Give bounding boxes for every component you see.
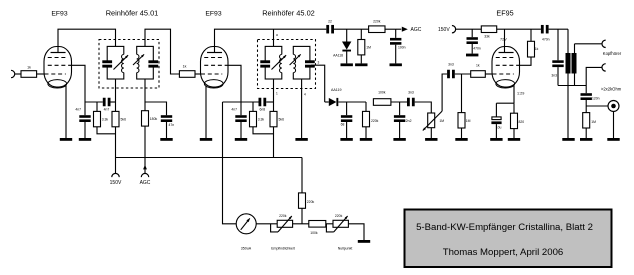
wire V2 cathode to ground <box>205 86 207 138</box>
pin label 4 <box>304 93 306 97</box>
wire rail to 150V terminal <box>115 158 117 174</box>
svg-text:1k: 1k <box>27 65 31 69</box>
wire R12 to C9 node <box>391 101 407 103</box>
terminal antenna input <box>11 70 15 77</box>
svg-text:1M: 1M <box>591 120 596 124</box>
wire R6 to V2 grid <box>195 73 201 75</box>
wire C14 to transformer node <box>549 28 568 30</box>
svg-text:Reinhöfer 45.02: Reinhöfer 45.02 <box>262 9 315 18</box>
svg-text:180k: 180k <box>150 117 158 121</box>
wire to AGC output arrow <box>396 28 402 30</box>
wire R5 to supply rail <box>144 126 146 157</box>
resistor R10 220k AGC series <box>369 20 385 33</box>
svg-text:470n: 470n <box>542 38 550 42</box>
resistor R3 5k6 <box>112 111 126 126</box>
resistor R4 3.3k <box>94 102 109 127</box>
resistor R5 180k AGC feed <box>142 102 158 126</box>
wire plate line into bandfilter 45.02 <box>273 29 275 46</box>
wire line out connector to ground <box>613 112 615 139</box>
wire R17 to V3 plate node <box>497 28 541 30</box>
svg-text:AA119: AA119 <box>331 88 342 92</box>
svg-text:100n: 100n <box>398 46 406 50</box>
ground C13 <box>490 138 502 141</box>
svg-text:EF93: EF93 <box>51 11 67 18</box>
ground bandfilter 45.02 <box>295 138 307 141</box>
title text line 2 <box>443 247 564 258</box>
svg-text:220k: 220k <box>335 214 343 218</box>
svg-text:Reinhöfer 45.01: Reinhöfer 45.01 <box>106 9 159 18</box>
resistor R9 1M <box>358 29 371 63</box>
diode D2 AA119 detector <box>325 88 342 106</box>
wire D2 to node D <box>338 101 366 103</box>
transformer T1 output <box>566 29 577 138</box>
ground meter circuit <box>358 240 370 243</box>
tube V1 EF93 <box>44 47 72 89</box>
ground C10 <box>393 138 405 141</box>
capacitor C10 2n2 <box>394 102 412 138</box>
svg-text:820: 820 <box>519 120 525 124</box>
capacitor C8 68p <box>341 102 353 138</box>
terminal Kopfhoerer tip <box>602 40 622 56</box>
svg-text:3n3: 3n3 <box>448 63 454 67</box>
wire C9 to volume pot <box>415 102 432 113</box>
pin label 1 <box>276 92 278 96</box>
wire R10 to C7 node <box>385 28 396 30</box>
svg-text:1k: 1k <box>535 47 539 51</box>
svg-text:Empfindlichkeit: Empfindlichkeit <box>271 247 295 251</box>
svg-text:1: 1 <box>276 92 278 96</box>
svg-text:5-Band-KW-Empfänger Cristallin: 5-Band-KW-Empfänger Cristallina, Blatt 2 <box>416 222 593 233</box>
capacitor C11 3n3 grid coupling <box>447 63 455 79</box>
capacitor C7 100n AGC filter <box>390 29 406 63</box>
capacitor C4 4n7 screen decoupling <box>231 102 246 138</box>
arrow AGC direction <box>143 165 147 170</box>
svg-text:4n7: 4n7 <box>75 108 81 112</box>
wire C6 to AA118 node <box>334 28 369 30</box>
svg-text:1M: 1M <box>366 46 371 50</box>
potentiometer P2 220k Empfindlichkeit <box>271 214 295 250</box>
resistor R1 1k grid stopper <box>21 65 37 77</box>
wire V1 plate to bandfilter 45.01 input <box>58 29 116 46</box>
ground C1 <box>79 138 91 141</box>
wire common rail <box>558 85 586 87</box>
wire supply rail to R15 <box>301 158 303 193</box>
pin label 3 <box>318 61 320 65</box>
svg-text:68: 68 <box>341 123 345 127</box>
tube V2 EF93 <box>201 47 229 89</box>
ground C12 <box>466 54 478 57</box>
bandfilter 45.01 dashed box <box>99 40 159 89</box>
terminal AGC <box>140 173 151 186</box>
wire rail to C16 <box>585 86 587 94</box>
ground C3 <box>160 138 172 141</box>
wire C5 to node S5 <box>266 101 273 103</box>
wire bandfilter 45.02 output pin3 <box>311 65 325 102</box>
svg-text:220k: 220k <box>279 214 287 218</box>
wire R4 bottom to R3 line <box>97 127 116 134</box>
capacitor C16 120n line out <box>581 93 600 106</box>
resistor R11 220k load <box>363 102 379 138</box>
wire V2 screen grid to node S4 <box>228 65 241 102</box>
wire V3 screen to R18 <box>520 57 532 65</box>
svg-text:3n3: 3n3 <box>551 73 557 77</box>
wire C2 to node S2 <box>111 101 116 103</box>
ground P1 <box>425 138 437 141</box>
ground C7 <box>390 63 402 66</box>
meter M1 350uA <box>236 214 256 251</box>
svg-text:220k: 220k <box>371 119 379 123</box>
svg-text:Thomas Moppert, April 2006: Thomas Moppert, April 2006 <box>443 247 564 258</box>
capacitor C2 4n7 coupling <box>103 98 111 112</box>
ground R11 <box>360 138 372 141</box>
svg-text:EF95: EF95 <box>496 9 513 18</box>
svg-text:5k6: 5k6 <box>121 118 127 122</box>
svg-text:470n: 470n <box>473 46 481 50</box>
svg-text:220k: 220k <box>373 20 381 24</box>
wire transformer secondary to headphone <box>575 43 602 45</box>
wire bandfilter 45.02 resonator1 bottom to node S5 <box>273 79 275 102</box>
svg-text:1M: 1M <box>466 119 471 123</box>
wire V2 plate to bandfilter 45.02 and AGC branch <box>215 29 327 46</box>
bandfilter 45.01 resonator 1 (cap + variable inductor) <box>102 46 128 79</box>
resistor R20 1M line out load <box>583 106 596 138</box>
svg-text:100k: 100k <box>378 91 386 95</box>
wire cathode node <box>496 102 514 104</box>
node AGC output <box>402 27 422 34</box>
ground transformer <box>562 138 574 141</box>
svg-text:2n2: 2n2 <box>406 119 412 123</box>
wire P1 bottom to ground <box>430 128 432 138</box>
bandfilter 45.01 resonator 2 (variable inductor + cap) <box>133 46 158 79</box>
capacitor C13 10u cathode bypass <box>491 103 501 138</box>
capacitor C9 3n3 coupling <box>407 91 415 107</box>
resistor R16 100k <box>309 221 326 236</box>
svg-text:Kopfhörer: Kopfhörer <box>603 51 622 56</box>
wire rail to AGC terminal <box>144 158 146 174</box>
capacitor C6 22p AGC <box>326 20 334 34</box>
ground V2 cathode <box>200 138 212 141</box>
resistor R7 3.3k <box>250 102 265 127</box>
bandfilter 45.02 resonator 2 <box>290 46 315 79</box>
capacitor C3 47n AGC decoupling <box>161 115 174 138</box>
wire node S4 to C5 <box>241 101 259 103</box>
wire V3 cathode <box>513 86 515 104</box>
potentiometer P3 220k Nullpunkt <box>326 214 352 250</box>
wire rail to headphone return <box>586 67 601 85</box>
label tube V3 type EF95 <box>496 9 513 18</box>
svg-text:AGC: AGC <box>140 180 151 186</box>
wire node S2 to R3 <box>115 102 117 111</box>
label bandfilter Reinhoefer 45.01 <box>106 9 159 18</box>
svg-text:a: a <box>276 33 278 37</box>
wire bandfilter 45.01 resonator1 bottom to node S2 <box>115 79 117 102</box>
wire P3 to ground <box>348 224 364 240</box>
wire R7 bottom to R8 line <box>253 127 274 134</box>
svg-text:4n7: 4n7 <box>231 108 237 112</box>
ground C8 <box>340 138 352 141</box>
wire meter feed from node S4 line <box>223 101 242 103</box>
svg-text:33k: 33k <box>484 34 490 38</box>
resistor R18 1k screen dropper <box>528 41 539 57</box>
svg-text:EF93: EF93 <box>205 11 221 18</box>
ground V1 cathode <box>60 138 72 141</box>
tube V3 EF95 <box>492 47 520 89</box>
bandfilter 45.02 dashed box <box>258 40 316 89</box>
svg-text:150V: 150V <box>110 180 122 186</box>
terminal Kopfhoerer sleeve <box>602 64 606 71</box>
resistor R17 33k <box>481 26 496 38</box>
wire bandfilter 45.01 output to R2 <box>145 29 179 74</box>
wire meter to P2 <box>256 223 277 225</box>
connector line output <box>608 101 619 112</box>
svg-text:1M: 1M <box>439 119 444 123</box>
wire P2 to node N1 <box>293 223 309 225</box>
ground R19 <box>508 138 520 141</box>
wire C16 to line out node <box>586 105 608 107</box>
label headphone impedance <box>601 87 622 92</box>
wire V1 screen grid to node S1 <box>72 65 86 102</box>
svg-text:22: 22 <box>328 20 332 24</box>
wire 150V to R17 <box>456 28 482 30</box>
capacitor C5 6n8 coupling <box>259 98 267 112</box>
label transformer ratio 1:9 <box>517 91 524 95</box>
wire P1 wiper to C11 <box>442 74 447 111</box>
ground R20 <box>580 138 592 141</box>
capacitor C15 3n3 tone <box>551 29 563 85</box>
resistor R15 220k meter feed <box>299 193 315 208</box>
wire R3 to supply rail <box>115 127 117 158</box>
svg-text:3: 3 <box>318 61 320 65</box>
ground line out <box>607 138 619 141</box>
svg-text:150V: 150V <box>438 27 450 33</box>
diode D1 AA118 <box>333 29 351 63</box>
svg-text:120n: 120n <box>592 96 600 100</box>
svg-text:220k: 220k <box>307 200 315 204</box>
svg-text:AA118: AA118 <box>333 53 343 57</box>
svg-text:6n8: 6n8 <box>259 108 265 112</box>
label tube V2 type EF93 <box>205 11 221 18</box>
capacitor C14 470n output coupling <box>541 25 550 42</box>
svg-text:4n7: 4n7 <box>104 108 110 112</box>
wire V1 cathode to ground <box>65 86 67 138</box>
svg-text:>2x2kOhm: >2x2kOhm <box>601 87 622 92</box>
wire V3 plate stem <box>504 29 506 46</box>
wire supply rail <box>116 157 303 159</box>
svg-text:3.3k: 3.3k <box>258 118 265 122</box>
ground D1 <box>341 63 353 66</box>
svg-text:3n3: 3n3 <box>408 91 414 95</box>
title text line 1 <box>416 222 593 233</box>
svg-text:AGC: AGC <box>411 27 422 33</box>
wire R1 to V1 grid <box>37 73 44 75</box>
wire S-meter feed <box>223 102 237 224</box>
resistor R14 1k grid stopper V3 <box>471 63 486 77</box>
resistor R12 100k <box>373 91 391 106</box>
wire R18 to plate supply <box>530 29 532 41</box>
resistor R13 1M grid leak <box>458 74 471 138</box>
terminal 150V supply <box>110 173 122 186</box>
wire bandfilter 45.01 resonator2 bottom to node S3 <box>144 79 146 102</box>
label 72V screen voltage <box>500 37 507 41</box>
wire R8 to supply rail <box>273 127 275 158</box>
svg-text:100k: 100k <box>310 231 318 235</box>
resistor R19 820 cathode <box>511 103 525 138</box>
bandfilter 45.02 resonator 1 <box>260 46 286 79</box>
capacitor C1 4n7 screen decoupling <box>75 102 90 138</box>
label tube V1 type EF93 <box>51 11 67 18</box>
resistor R6 1k grid stopper V2 <box>179 65 195 78</box>
pin label a <box>276 33 278 37</box>
resistor R8 5k6 <box>270 102 284 127</box>
svg-text:Nullpunkt: Nullpunkt <box>338 247 353 251</box>
svg-text:72V: 72V <box>500 37 507 41</box>
wire C11 to R14 <box>455 73 471 75</box>
terminal 150V supply right <box>438 26 456 34</box>
wire R16 to P3 <box>326 223 333 225</box>
ground R13 <box>455 138 467 141</box>
svg-text:3.3k: 3.3k <box>102 118 109 122</box>
wire R15 to node N1 <box>301 208 303 224</box>
wire bandfilter 45.02 resonator2 bottom to ground <box>301 79 303 138</box>
svg-text:1k: 1k <box>183 65 187 69</box>
svg-text:47n: 47n <box>169 123 175 127</box>
label bandfilter Reinhoefer 45.02 <box>262 9 315 18</box>
svg-text:5k6: 5k6 <box>279 118 285 122</box>
potentiometer P1 1M volume <box>423 111 444 130</box>
wire node S1 to C2 <box>85 101 103 103</box>
svg-text:4: 4 <box>304 93 306 97</box>
wire node S3 to C3 <box>145 102 167 115</box>
wire antenna to R1 <box>15 73 21 75</box>
ground R9 <box>355 63 367 66</box>
title block box <box>405 210 612 268</box>
wire R14 to V3 grid <box>485 73 492 75</box>
svg-text:1:29: 1:29 <box>517 91 524 95</box>
ground C4 <box>235 138 247 141</box>
capacitor C12 470n supply decoupling <box>467 29 481 53</box>
svg-text:350uA: 350uA <box>241 247 252 251</box>
svg-text:1k: 1k <box>476 63 480 67</box>
